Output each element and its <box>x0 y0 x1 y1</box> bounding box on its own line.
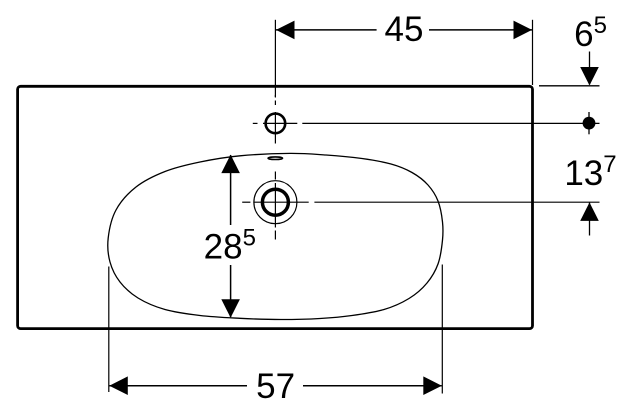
svg-text:45: 45 <box>385 10 424 49</box>
svg-text:57: 57 <box>256 367 295 406</box>
